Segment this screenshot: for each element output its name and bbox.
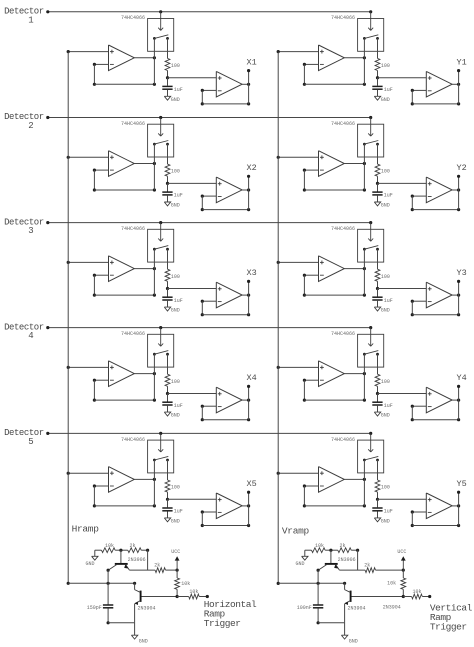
wire ramp bus tap row4 X bbox=[67, 366, 109, 369]
ground row3 X bbox=[164, 301, 179, 314]
svg-text:3: 3 bbox=[28, 226, 33, 236]
switch contacts row2 X bbox=[153, 141, 169, 191]
switch contacts row2 Y bbox=[363, 141, 379, 191]
wire switch control arrow row4 Y bbox=[368, 328, 373, 347]
capacitor 1uF row5 Y bbox=[372, 499, 393, 514]
switch contacts row5 X bbox=[153, 456, 169, 506]
svg-text:1uF: 1uF bbox=[384, 87, 393, 93]
svg-text:1uF: 1uF bbox=[174, 193, 183, 199]
svg-text:74HC4066: 74HC4066 bbox=[121, 437, 145, 443]
svg-text:74HC4066: 74HC4066 bbox=[331, 437, 355, 443]
svg-text:100nF: 100nF bbox=[297, 605, 312, 611]
capacitor 1uF row4 X bbox=[162, 394, 183, 409]
wire ramp node rail V bbox=[278, 570, 346, 585]
wire emitter Vramp bbox=[339, 569, 365, 571]
wire switch control arrow row2 Y bbox=[368, 118, 373, 137]
wire emitter Hramp bbox=[129, 569, 155, 571]
switch contacts row3 X bbox=[153, 246, 169, 296]
wire feedback row2 X bbox=[93, 169, 156, 192]
wire feedback row3 X bbox=[93, 274, 156, 297]
wire base node Vramp bbox=[325, 549, 338, 563]
svg-text:1uF: 1uF bbox=[384, 509, 393, 515]
resistor 2k Vramp emitter bbox=[364, 563, 403, 573]
wire Hramp bus bbox=[67, 52, 70, 585]
wire buffer output row5 X bbox=[242, 491, 250, 526]
svg-text:Trigger: Trigger bbox=[430, 622, 467, 633]
node RC junction row1 Y bbox=[376, 71, 426, 80]
switch contacts row1 Y bbox=[363, 35, 379, 85]
svg-text:GND: GND bbox=[381, 519, 390, 525]
svg-text:10k: 10k bbox=[105, 543, 114, 549]
capacitor 1uF row2 Y bbox=[372, 183, 393, 198]
ground row1 Y bbox=[374, 90, 389, 103]
svg-text:Y5: Y5 bbox=[456, 479, 466, 489]
wire op-amp output row5 X bbox=[134, 478, 156, 481]
svg-text:100: 100 bbox=[381, 169, 390, 175]
wire feedback row3 Y bbox=[303, 274, 366, 297]
node Vramp label bbox=[282, 526, 310, 537]
capacitor 1uF row4 Y bbox=[372, 394, 393, 409]
svg-text:Y4: Y4 bbox=[456, 373, 466, 383]
ground Hramp emitter bbox=[131, 623, 147, 645]
label 2N3904 duplicate Vramp bbox=[383, 605, 401, 611]
wire trigger base Hramp bbox=[142, 595, 179, 598]
resistor 10k Hramp pullup bbox=[175, 570, 191, 596]
transistor QH1 2N3906 bbox=[107, 557, 146, 572]
svg-text:1uF: 1uF bbox=[384, 298, 393, 304]
wire buffer feedback row3 Y bbox=[411, 300, 461, 317]
ground row2 Y bbox=[374, 196, 389, 209]
resistor 100 row2 Y bbox=[375, 164, 390, 176]
wire Detector 5 line bbox=[46, 432, 372, 435]
wire op-amp output row4 X bbox=[134, 372, 156, 375]
ground Vramp emitter bbox=[341, 623, 357, 645]
node Y2 bbox=[456, 163, 466, 173]
node RC junction row4 X bbox=[166, 386, 216, 395]
svg-text:100: 100 bbox=[381, 485, 390, 491]
switch contacts row4 Y bbox=[363, 351, 379, 401]
resistor 100 row5 X bbox=[165, 480, 180, 492]
wire op-amp output row1 Y bbox=[344, 56, 366, 59]
ground row4 X bbox=[164, 406, 179, 419]
svg-text:GND: GND bbox=[171, 308, 180, 314]
wire Detector 2 line bbox=[46, 116, 372, 119]
analog switch 74HC4066 row4 X bbox=[121, 331, 174, 367]
wire Detector 1 line bbox=[46, 10, 372, 13]
node RC junction row4 Y bbox=[376, 386, 426, 395]
analog switch 74HC4066 row2 Y bbox=[331, 121, 384, 157]
switch contacts row5 Y bbox=[363, 456, 379, 506]
resistor 100 row3 Y bbox=[375, 269, 390, 281]
power VCC Hramp bbox=[171, 549, 180, 572]
op-amp input buffer row3 X bbox=[109, 256, 135, 282]
switch contacts row4 X bbox=[153, 351, 169, 401]
resistor 10k Vramp trigger bbox=[403, 589, 429, 599]
switch contacts row3 Y bbox=[363, 246, 379, 296]
svg-text:GND: GND bbox=[381, 203, 390, 209]
svg-text:2k: 2k bbox=[364, 563, 370, 569]
resistor 2k Vramp upper bbox=[338, 543, 359, 570]
node X2 bbox=[246, 163, 256, 173]
svg-text:1uF: 1uF bbox=[174, 509, 183, 515]
switch contacts row1 X bbox=[153, 35, 169, 85]
wire switch control arrow row5 Y bbox=[368, 433, 373, 452]
svg-text:UCC: UCC bbox=[397, 549, 406, 555]
wire ramp bus tap row5 Y bbox=[277, 472, 319, 475]
analog switch 74HC4066 row5 X bbox=[121, 437, 174, 473]
svg-text:1uF: 1uF bbox=[384, 403, 393, 409]
resistor 100 row4 X bbox=[165, 374, 180, 386]
svg-text:10k: 10k bbox=[315, 543, 324, 549]
capacitor 1uF row1 X bbox=[162, 78, 183, 93]
op-amp input buffer row5 Y bbox=[319, 467, 345, 493]
svg-text:GND: GND bbox=[381, 308, 390, 314]
wire switch control arrow row4 X bbox=[158, 328, 163, 347]
svg-text:2k: 2k bbox=[340, 543, 346, 549]
ground row5 Y bbox=[374, 512, 389, 525]
node Detector 5 label bbox=[4, 428, 44, 447]
resistor 100 row3 X bbox=[165, 269, 180, 281]
wire buffer output row4 Y bbox=[452, 385, 460, 420]
svg-text:74HC4066: 74HC4066 bbox=[331, 331, 355, 337]
svg-text:Detector: Detector bbox=[4, 322, 44, 332]
wire buffer feedback row5 X bbox=[201, 510, 251, 527]
svg-text:Hramp: Hramp bbox=[72, 524, 100, 535]
ground row2 X bbox=[164, 196, 179, 209]
svg-text:100: 100 bbox=[381, 379, 390, 385]
svg-text:Detector: Detector bbox=[4, 112, 44, 122]
wire feedback row1 Y bbox=[303, 63, 366, 86]
wire ramp bus tap row2 Y bbox=[277, 156, 319, 159]
resistor 10k Vramp bias bbox=[312, 543, 326, 553]
resistor 2k Hramp upper bbox=[128, 543, 149, 570]
node Detector 2 label bbox=[4, 112, 44, 131]
wire switch control arrow row3 X bbox=[158, 223, 163, 242]
svg-text:GND: GND bbox=[171, 519, 180, 525]
svg-text:74HC4066: 74HC4066 bbox=[121, 121, 145, 127]
svg-text:150pF: 150pF bbox=[87, 605, 102, 611]
wire op-amp output row5 Y bbox=[344, 478, 366, 481]
svg-text:10k: 10k bbox=[181, 581, 190, 587]
op-amp output buffer row1 X bbox=[216, 71, 242, 97]
node Detector 1 label bbox=[4, 7, 44, 26]
op-amp output buffer row2 Y bbox=[426, 177, 452, 203]
node X4 bbox=[246, 373, 256, 383]
svg-text:Y1: Y1 bbox=[456, 57, 466, 67]
svg-text:X2: X2 bbox=[246, 163, 256, 173]
svg-text:GND: GND bbox=[381, 413, 390, 419]
svg-text:2k: 2k bbox=[154, 563, 160, 569]
resistor 10k Hramp bias bbox=[102, 543, 116, 553]
wire Detector 4 line bbox=[46, 326, 372, 329]
transistor QH2 2N3904 bbox=[134, 583, 155, 623]
analog switch 74HC4066 row2 X bbox=[121, 121, 174, 157]
wire buffer output row3 X bbox=[242, 280, 250, 315]
svg-text:Detector: Detector bbox=[4, 7, 44, 17]
svg-text:Detector: Detector bbox=[4, 217, 44, 227]
transistor QV2 2N3904 bbox=[344, 583, 365, 623]
op-amp input buffer row4 X bbox=[109, 361, 135, 387]
node Y1 bbox=[456, 57, 466, 67]
wire trigger base Vramp bbox=[352, 595, 405, 598]
wire switch control arrow row5 X bbox=[158, 433, 163, 452]
wire switch control arrow row1 X bbox=[158, 12, 163, 31]
svg-text:GND: GND bbox=[381, 97, 390, 103]
node Hramp label bbox=[72, 524, 100, 535]
svg-text:74HC4066: 74HC4066 bbox=[331, 121, 355, 127]
wire ramp bus tap row3 X bbox=[67, 261, 109, 264]
resistor 100 row1 X bbox=[165, 58, 180, 70]
node Y5 bbox=[456, 479, 466, 489]
capacitor 150pF Hramp bbox=[87, 583, 114, 624]
svg-text:Y3: Y3 bbox=[456, 268, 466, 278]
wire feedback row4 Y bbox=[303, 379, 366, 402]
svg-text:X4: X4 bbox=[246, 373, 256, 383]
wire ramp bus tap row1 Y bbox=[277, 50, 319, 53]
wire buffer feedback row2 X bbox=[201, 195, 251, 212]
analog switch 74HC4066 row1 X bbox=[121, 15, 174, 51]
svg-text:2N3904: 2N3904 bbox=[348, 606, 366, 612]
svg-text:1: 1 bbox=[28, 15, 33, 25]
node RC junction row2 X bbox=[166, 176, 216, 185]
node X1 bbox=[246, 57, 256, 67]
wire feedback row5 Y bbox=[303, 484, 366, 507]
node RC junction row5 Y bbox=[376, 492, 426, 501]
power VCC Vramp bbox=[397, 549, 406, 572]
wire ramp bus tap row3 Y bbox=[277, 261, 319, 264]
capacitor 1uF row3 Y bbox=[372, 289, 393, 304]
resistor 100 row1 Y bbox=[375, 58, 390, 70]
op-amp output buffer row3 Y bbox=[426, 282, 452, 308]
wire buffer feedback row1 Y bbox=[411, 89, 461, 106]
svg-text:GND: GND bbox=[171, 97, 180, 103]
node Horizontal Ramp Trigger bbox=[204, 595, 257, 629]
op-amp input buffer row2 Y bbox=[319, 151, 345, 177]
svg-text:74HC4066: 74HC4066 bbox=[121, 226, 145, 232]
wire op-amp output row1 X bbox=[134, 56, 156, 59]
op-amp input buffer row1 X bbox=[109, 45, 135, 71]
analog switch 74HC4066 row3 Y bbox=[331, 226, 384, 262]
wire feedback row5 X bbox=[93, 484, 156, 507]
wire buffer output row4 X bbox=[242, 385, 250, 420]
wire buffer feedback row4 X bbox=[201, 405, 251, 422]
ground row1 X bbox=[164, 90, 179, 103]
svg-text:1uF: 1uF bbox=[384, 193, 393, 199]
svg-text:100: 100 bbox=[381, 274, 390, 280]
node RC junction row1 X bbox=[166, 71, 216, 80]
svg-text:2N3904: 2N3904 bbox=[383, 605, 401, 611]
capacitor 1uF row3 X bbox=[162, 289, 183, 304]
wire discharge rail Vramp bbox=[318, 622, 345, 624]
wire op-amp output row4 Y bbox=[344, 372, 366, 375]
wire op-amp output row2 X bbox=[134, 162, 156, 165]
wire buffer feedback row1 X bbox=[201, 89, 251, 106]
svg-text:74HC4066: 74HC4066 bbox=[121, 331, 145, 337]
node Y4 bbox=[456, 373, 466, 383]
capacitor 1uF row2 X bbox=[162, 183, 183, 198]
svg-text:2k: 2k bbox=[130, 543, 136, 549]
svg-text:2N3906: 2N3906 bbox=[338, 557, 356, 563]
wire buffer output row1 X bbox=[242, 69, 250, 104]
op-amp output buffer row4 Y bbox=[426, 387, 452, 413]
ground row3 Y bbox=[374, 301, 389, 314]
wire buffer feedback row2 Y bbox=[411, 195, 461, 212]
wire buffer feedback row5 Y bbox=[411, 510, 461, 527]
svg-text:GND: GND bbox=[171, 203, 180, 209]
wire buffer output row2 Y bbox=[452, 175, 460, 210]
op-amp output buffer row4 X bbox=[216, 387, 242, 413]
op-amp input buffer row4 Y bbox=[319, 361, 345, 387]
wire switch control arrow row3 Y bbox=[368, 223, 373, 242]
svg-text:X5: X5 bbox=[246, 479, 256, 489]
wire Vramp bus bbox=[277, 52, 280, 585]
resistor 100 row4 Y bbox=[375, 374, 390, 386]
node Detector 4 label bbox=[4, 322, 44, 341]
wire feedback row1 X bbox=[93, 63, 156, 86]
node RC junction row2 Y bbox=[376, 176, 426, 185]
op-amp input buffer row2 X bbox=[109, 151, 135, 177]
wire buffer feedback row3 X bbox=[201, 300, 251, 317]
svg-text:1uF: 1uF bbox=[174, 87, 183, 93]
ground Hramp bias bbox=[85, 550, 101, 567]
wire feedback row2 Y bbox=[303, 169, 366, 192]
op-amp output buffer row5 X bbox=[216, 493, 242, 519]
wire switch control arrow row1 Y bbox=[368, 12, 373, 31]
svg-text:2N3904: 2N3904 bbox=[138, 606, 156, 612]
op-amp output buffer row1 Y bbox=[426, 71, 452, 97]
svg-text:GND: GND bbox=[139, 639, 148, 645]
op-amp output buffer row5 Y bbox=[426, 493, 452, 519]
capacitor 1uF row5 X bbox=[162, 499, 183, 514]
wire Detector 3 line bbox=[46, 221, 372, 224]
wire op-amp output row3 X bbox=[134, 267, 156, 270]
svg-text:74HC4066: 74HC4066 bbox=[331, 226, 355, 232]
resistor 100 row2 X bbox=[165, 164, 180, 176]
svg-text:1uF: 1uF bbox=[174, 403, 183, 409]
svg-text:2: 2 bbox=[28, 121, 33, 131]
wire switch control arrow row2 X bbox=[158, 118, 163, 137]
svg-text:GND: GND bbox=[85, 561, 94, 567]
svg-text:UCC: UCC bbox=[171, 549, 180, 555]
wire discharge rail Hramp bbox=[108, 622, 135, 624]
op-amp output buffer row3 X bbox=[216, 282, 242, 308]
wire op-amp output row2 Y bbox=[344, 162, 366, 165]
svg-text:10k: 10k bbox=[387, 580, 396, 586]
op-amp output buffer row2 X bbox=[216, 177, 242, 203]
wire ramp node rail H bbox=[68, 570, 136, 585]
svg-text:2N3906: 2N3906 bbox=[128, 557, 146, 563]
svg-text:X3: X3 bbox=[246, 268, 256, 278]
svg-text:Vramp: Vramp bbox=[282, 526, 310, 537]
resistor 10k Hramp trigger bbox=[177, 589, 207, 599]
node RC junction row3 X bbox=[166, 281, 216, 290]
svg-text:X1: X1 bbox=[246, 57, 256, 67]
node X3 bbox=[246, 268, 256, 278]
svg-text:4: 4 bbox=[28, 331, 33, 341]
svg-text:GND: GND bbox=[295, 561, 304, 567]
svg-text:10k: 10k bbox=[189, 589, 198, 595]
op-amp input buffer row5 X bbox=[109, 467, 135, 493]
svg-text:100: 100 bbox=[171, 379, 180, 385]
svg-text:5: 5 bbox=[28, 437, 33, 447]
node Detector 3 label bbox=[4, 217, 44, 236]
svg-text:100: 100 bbox=[381, 63, 390, 69]
resistor 2k Hramp emitter bbox=[154, 563, 177, 573]
svg-text:Trigger: Trigger bbox=[204, 618, 241, 629]
wire ramp bus tap row4 Y bbox=[277, 366, 319, 369]
wire buffer output row2 X bbox=[242, 175, 250, 210]
ground row4 Y bbox=[374, 406, 389, 419]
wire feedback row4 X bbox=[93, 379, 156, 402]
svg-text:1uF: 1uF bbox=[174, 298, 183, 304]
wire buffer feedback row4 Y bbox=[411, 405, 461, 422]
svg-text:Detector: Detector bbox=[4, 428, 44, 438]
node Y3 bbox=[456, 268, 466, 278]
svg-text:100: 100 bbox=[171, 63, 180, 69]
ground Vramp bias bbox=[295, 550, 311, 567]
wire buffer output row5 Y bbox=[452, 491, 460, 526]
analog switch 74HC4066 row5 Y bbox=[331, 437, 384, 473]
wire buffer output row1 Y bbox=[452, 69, 460, 104]
capacitor 100nF Vramp bbox=[297, 583, 324, 624]
svg-text:74HC4066: 74HC4066 bbox=[331, 15, 355, 21]
ground row5 X bbox=[164, 512, 179, 525]
resistor 100 row5 Y bbox=[375, 480, 390, 492]
wire buffer output row3 Y bbox=[452, 280, 460, 315]
wire op-amp output row3 Y bbox=[344, 267, 366, 270]
svg-text:100: 100 bbox=[171, 485, 180, 491]
wire ramp bus tap row5 X bbox=[67, 472, 109, 475]
node Vertical Ramp Trigger bbox=[428, 595, 473, 633]
capacitor 1uF row1 Y bbox=[372, 78, 393, 93]
svg-text:100: 100 bbox=[171, 169, 180, 175]
svg-text:100: 100 bbox=[171, 274, 180, 280]
svg-text:74HC4066: 74HC4066 bbox=[121, 15, 145, 21]
svg-text:10k: 10k bbox=[412, 589, 421, 595]
wire ramp bus tap row2 X bbox=[67, 156, 109, 159]
node X5 bbox=[246, 479, 256, 489]
op-amp input buffer row1 Y bbox=[319, 45, 345, 71]
wire ramp bus tap row1 X bbox=[67, 50, 109, 53]
svg-text:GND: GND bbox=[171, 413, 180, 419]
op-amp input buffer row3 Y bbox=[319, 256, 345, 282]
resistor 10k Vramp pullup bbox=[387, 570, 406, 596]
wire base node Hramp bbox=[115, 549, 128, 563]
node RC junction row3 Y bbox=[376, 281, 426, 290]
analog switch 74HC4066 row3 X bbox=[121, 226, 174, 262]
node RC junction row5 X bbox=[166, 492, 216, 501]
svg-text:Y2: Y2 bbox=[456, 163, 466, 173]
svg-text:GND: GND bbox=[349, 639, 358, 645]
analog switch 74HC4066 row4 Y bbox=[331, 331, 384, 367]
transistor QV1 2N3906 bbox=[317, 557, 356, 572]
analog switch 74HC4066 row1 Y bbox=[331, 15, 384, 51]
